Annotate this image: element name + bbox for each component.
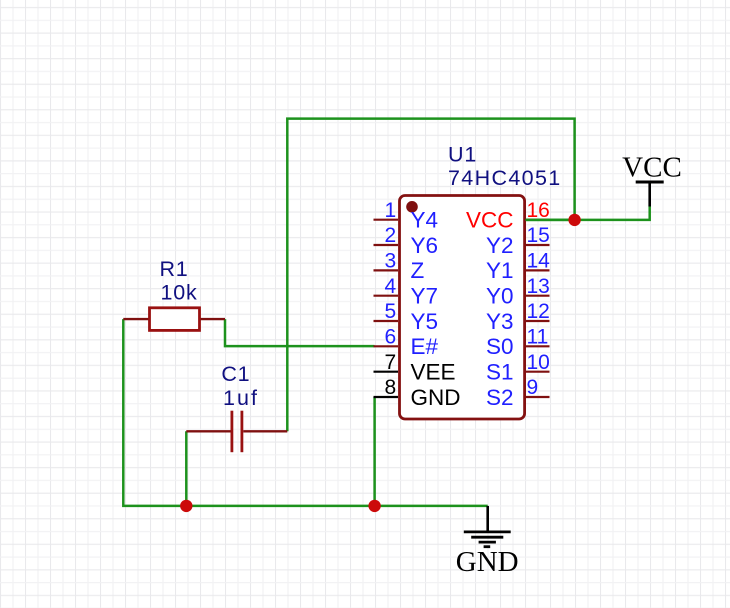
pin 4 Y7 xyxy=(374,275,439,309)
pin 1 marker dot xyxy=(406,201,418,213)
svg-text:5: 5 xyxy=(385,300,397,323)
svg-text:1: 1 xyxy=(385,199,397,222)
svg-text:VCC: VCC xyxy=(622,152,682,184)
svg-text:12: 12 xyxy=(527,300,550,323)
svg-text:Y2: Y2 xyxy=(486,233,514,258)
pin 7 VEE xyxy=(374,351,456,385)
pin 12 Y3 xyxy=(486,300,550,334)
IC U1 74HC4051 body xyxy=(400,196,525,420)
label R1 xyxy=(159,257,188,281)
svg-text:4: 4 xyxy=(385,275,397,298)
svg-text:GND: GND xyxy=(456,546,519,578)
svg-text:Y6: Y6 xyxy=(411,233,439,258)
wire C1 left plate drop to bottom rail xyxy=(185,431,188,506)
wire net GND: left rail from R1 left lead down and bottom rail to GND flag xyxy=(123,319,487,506)
svg-text:R1: R1 xyxy=(159,257,188,281)
svg-text:15: 15 xyxy=(527,224,550,247)
value 10k xyxy=(160,281,197,305)
junction dot at C1 bottom rail xyxy=(180,500,192,512)
svg-text:Z: Z xyxy=(411,258,425,283)
pin 11 S0 xyxy=(486,326,550,360)
svg-text:8: 8 xyxy=(385,376,397,399)
svg-text:16: 16 xyxy=(527,199,550,222)
value 74HC4051 xyxy=(448,166,562,190)
svg-text:74HC4051: 74HC4051 xyxy=(448,166,562,190)
power flag VCC xyxy=(622,152,682,207)
svg-text:3: 3 xyxy=(385,250,397,273)
label U1 xyxy=(448,143,477,167)
ground GND flag xyxy=(456,506,519,578)
wire net VCC top: from C1 right plate up over to pin 16 xyxy=(287,119,574,432)
svg-text:Y7: Y7 xyxy=(411,284,439,309)
junction dot at GND drop on bottom rail xyxy=(368,500,380,512)
wire overlay pin16 green over stub xyxy=(526,219,575,222)
svg-text:9: 9 xyxy=(527,376,539,399)
pin 5 Y5 xyxy=(374,300,439,334)
pin 16 VCC xyxy=(466,199,550,233)
value 1uf xyxy=(223,386,259,410)
wire pin16 to VCC flag xyxy=(526,206,650,220)
svg-text:Y3: Y3 xyxy=(486,309,514,334)
svg-text:Y0: Y0 xyxy=(486,284,514,309)
pin 3 Z xyxy=(374,250,425,284)
svg-text:11: 11 xyxy=(527,326,549,349)
svg-text:Y4: Y4 xyxy=(411,208,439,233)
svg-text:6: 6 xyxy=(385,326,397,349)
svg-text:S2: S2 xyxy=(486,385,514,410)
resistor R1 xyxy=(123,308,225,331)
pin 2 Y6 xyxy=(374,224,439,258)
pin 8 GND xyxy=(374,376,461,410)
svg-text:1uf: 1uf xyxy=(223,386,259,410)
pin 6 E# xyxy=(374,326,439,360)
svg-text:S1: S1 xyxy=(486,360,514,385)
pin 1 Y4 xyxy=(374,199,439,233)
svg-text:13: 13 xyxy=(527,275,550,298)
svg-text:14: 14 xyxy=(527,250,551,273)
svg-text:10: 10 xyxy=(527,351,550,374)
wire pin 8 GND drop to bottom rail xyxy=(373,397,376,506)
svg-text:U1: U1 xyxy=(448,143,477,167)
wire net E#: from R1 right lead down and right to pin 6 xyxy=(225,319,375,346)
svg-text:Y5: Y5 xyxy=(411,309,439,334)
pin 13 Y0 xyxy=(486,275,550,309)
svg-text:2: 2 xyxy=(385,224,397,247)
label C1 xyxy=(221,362,250,386)
svg-text:S0: S0 xyxy=(486,334,514,359)
svg-text:VCC: VCC xyxy=(466,208,514,233)
junction dot at VCC net xyxy=(568,214,580,226)
pin 9 S2 xyxy=(486,376,550,410)
svg-text:VEE: VEE xyxy=(411,360,456,385)
svg-text:Y1: Y1 xyxy=(486,258,514,283)
svg-text:7: 7 xyxy=(385,351,397,374)
pin 14 Y1 xyxy=(486,250,550,284)
svg-text:E#: E# xyxy=(411,334,439,359)
svg-text:GND: GND xyxy=(411,385,461,410)
svg-text:C1: C1 xyxy=(221,362,250,386)
svg-text:10k: 10k xyxy=(160,281,197,305)
pin 15 Y2 xyxy=(486,224,550,258)
capacitor C1 xyxy=(186,411,287,453)
pin 10 S1 xyxy=(486,351,550,385)
